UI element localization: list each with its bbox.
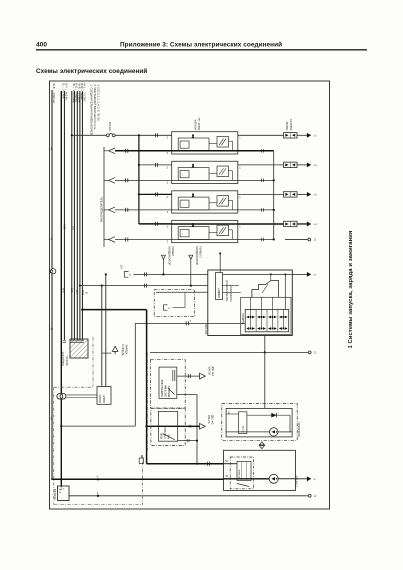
junction ig rail [264, 351, 266, 353]
wire HT 1 [115, 150, 172, 152]
wire HT 2 [115, 179, 172, 181]
wire B+ to starter50 [147, 463, 224, 465]
svg-text:3: 3 [190, 320, 192, 323]
junction bundle B+ [81, 308, 83, 310]
wire row3 feed [139, 193, 172, 195]
wire igsw drop 2 [105, 274, 107, 386]
junction panel pins [63, 340, 66, 342]
svg-text:КОММУТАТОР: КОММУТАТОР [230, 285, 233, 302]
wire b6 [76, 91, 78, 340]
igniter box [216, 273, 223, 300]
svg-text:30: 30 [225, 475, 228, 478]
junction trunk top [138, 134, 140, 136]
wire battery down [60, 399, 62, 486]
wire battery feed [60, 91, 62, 393]
wire ECU top [219, 253, 221, 272]
svg-text:1. СОЕДИНИТЕЛЬНАЯ ПАНЕЛЬ БЛОКО: 1. СОЕДИНИТЕЛЬНАЯ ПАНЕЛЬ БЛОКОВ [90, 85, 94, 136]
wire 50 [224, 463, 238, 465]
wire b3 [63, 91, 65, 340]
svg-text:W-B: W-B [62, 288, 65, 293]
ECU internal links [223, 285, 240, 287]
svg-text:W-R: W-R [81, 290, 84, 295]
wire b8 [81, 91, 83, 340]
svg-text:15A IGN: 15A IGN [108, 122, 112, 132]
wire b7 [79, 91, 81, 340]
wire igsw drop 1 [101, 286, 103, 387]
junction fuse line [71, 134, 73, 136]
boundary line e [142, 455, 144, 505]
ignition coil unit 4 [172, 223, 238, 225]
wire NE line [156, 291, 208, 293]
junction row2 feed [138, 164, 140, 166]
svg-text:B: B [85, 292, 88, 294]
svg-text:IC РЕГ.: IC РЕГ. [243, 425, 245, 433]
junction IGF start [79, 285, 81, 287]
svg-text:РАСПРЕДЕЛИТЕЛЬ: РАСПРЕДЕЛИТЕЛЬ [100, 197, 104, 222]
charge indicator arrow [112, 346, 118, 351]
svg-text:ЗАЖИГ. №1: ЗАЖИГ. №1 [198, 117, 201, 131]
svg-text:1: 1 [239, 166, 241, 169]
wire STA drop [134, 323, 136, 426]
svg-text:СОЕДИНИТ.: СОЕДИНИТ. [62, 351, 65, 366]
svg-text:МАССА: МАССА [208, 367, 211, 376]
svg-text:3: 3 [167, 211, 169, 214]
svg-text:СТАРТЕРА: СТАРТЕРА [164, 427, 167, 439]
wire B+ horizontal [82, 309, 146, 311]
wire fuse line left [72, 134, 107, 136]
junction igsw1 [101, 285, 103, 287]
wire charge branch [102, 352, 112, 354]
ignition switch box [97, 387, 111, 405]
ground arrow relay1 [200, 373, 206, 379]
svg-text:1: 1 [239, 137, 241, 140]
svg-text:2: 2 [97, 492, 99, 495]
wire STA line [135, 322, 245, 324]
svg-text:1 Системы запуска, заряда и за: 1 Системы запуска, заряда и зажигания [348, 231, 354, 349]
HT tick [261, 149, 263, 152]
wire secondary out 1 [238, 150, 274, 152]
wire starter rail [53, 478, 55, 480]
wire IGT line [134, 273, 208, 275]
svg-text:з-1: з-1 [314, 135, 318, 138]
wire b4 [71, 91, 73, 340]
svg-text:ДВС №1: ДВС №1 [211, 367, 214, 377]
svg-text:2.0L: 2.0L [70, 288, 73, 293]
svg-text:БАТАРЕЯ: БАТАРЕЯ [54, 489, 57, 500]
wire feed trunk [138, 135, 140, 224]
junction filter1 [162, 273, 164, 275]
capacitor filter 2 [189, 255, 193, 259]
wire spark 2 [238, 164, 284, 166]
distributor terminal 4 [109, 237, 115, 243]
svg-text:«: « [129, 273, 131, 277]
svg-text:м: м [314, 478, 316, 481]
wire spark 4 [238, 223, 284, 225]
wire spark end 4 [297, 223, 308, 225]
junction relay2 feed [145, 425, 147, 427]
junction logic [270, 273, 272, 275]
wire battery top pin [60, 486, 62, 488]
svg-text:B-Y ← №2 бл.: B-Y ← №2 бл. [65, 84, 69, 101]
wire B+ vertical [146, 310, 148, 464]
svg-text:IG2: IG2 [71, 226, 74, 231]
spark connector 1 [284, 133, 298, 138]
svg-text:B-Y: B-Y [75, 290, 78, 295]
svg-text:1: 1 [239, 225, 241, 228]
wire rail30 corner [51, 479, 53, 480]
starter relay box [151, 408, 185, 445]
wire rail30 [52, 478, 224, 480]
svg-text:СТАРТЕР: СТАРТЕР [295, 475, 299, 487]
svg-text:з-3: з-3 [314, 194, 318, 197]
svg-text:12: 12 [314, 239, 317, 242]
svg-text:2: 2 [167, 166, 169, 169]
wire b5 [73, 91, 75, 340]
svg-text:ПОМЕХ: ПОМЕХ [171, 247, 174, 256]
wire relay1 out [177, 375, 200, 377]
boundary line b [54, 386, 93, 388]
coupling symbol [259, 442, 264, 445]
junction HT row4 [273, 238, 275, 240]
sensor box [154, 289, 194, 316]
svg-text:3. (2,0 L) 1, 2, 3, 4, 5, 6, 7: 3. (2,0 L) 1, 2, 3, 4, 5, 6, 7В, 8А [97, 85, 101, 121]
junction panel [70, 339, 88, 358]
svg-text:Схемы электрических соединений: Схемы электрических соединений [36, 67, 147, 75]
battery box [58, 486, 70, 501]
generator link [226, 413, 238, 415]
generator outer [222, 403, 297, 440]
svg-text:W-L ← 3.0 ЭБУ: W-L ← 3.0 ЭБУ [83, 84, 87, 102]
svg-text:Приложение 3: Схемы электрич: Приложение 3: Схемы электрических соедин… [120, 41, 282, 49]
svg-text:МАССА: МАССА [207, 415, 210, 424]
wire ECU out right [292, 273, 307, 275]
solenoid coil [237, 462, 251, 481]
svg-text:ЗАЖИГ.: ЗАЖИГ. [103, 394, 106, 403]
distributor body [103, 147, 105, 247]
wire spark 1 [238, 134, 284, 136]
wire HT 3 [115, 209, 172, 211]
svg-text:ЗАМОК: ЗАМОК [99, 394, 102, 403]
svg-text:ПОМЕХ 2: ПОМЕХ 2 [198, 247, 201, 259]
wire secondary out 3 [238, 209, 274, 211]
fuse F1 [107, 134, 110, 137]
svg-text:2: 2 [167, 137, 169, 140]
wire row2 feed [139, 164, 172, 166]
wire spark end 3 [297, 193, 308, 195]
spark connector 3 [284, 192, 298, 197]
HT tick [261, 179, 263, 182]
wire ig rail [150, 351, 308, 353]
svg-text:ЗАЖИГАН.: ЗАЖИГАН. [242, 313, 245, 325]
diagram frame [50, 81, 330, 509]
svg-text:«: « [168, 306, 170, 310]
wire secondary out 2 [238, 179, 274, 181]
ignition coil unit 3 [172, 191, 238, 213]
svg-text:12: 12 [314, 495, 317, 498]
junction relay drop [196, 463, 198, 465]
junction igsw2 [105, 273, 107, 275]
svg-text::: : [182, 232, 183, 236]
svg-text:СВЕЧИ: СВЕЧИ [285, 121, 289, 130]
svg-text:КОНДЕНСАТОР: КОНДЕНСАТОР [195, 247, 198, 266]
splice marker 2 [97, 495, 99, 497]
svg-text:ГЕНЕРАТОР: ГЕНЕРАТОР [297, 422, 301, 437]
boundary line d [54, 504, 143, 506]
wire ECU to rail [264, 336, 266, 353]
ECU connector grid [245, 310, 289, 332]
svg-text:+: + [63, 486, 65, 490]
wire rail to generator [264, 352, 266, 408]
starter box [224, 450, 296, 490]
wire 30 out [278, 478, 295, 480]
connector symbol IGT [124, 272, 128, 278]
wire relay2 out [177, 440, 197, 442]
generator box [226, 408, 292, 437]
wire ECU grid feed [284, 274, 286, 309]
starter relay inner [158, 411, 177, 441]
wire spark end 2 [297, 164, 308, 166]
regulator box [239, 412, 247, 434]
wire HT 4 [115, 238, 172, 240]
wire starter to edge [296, 478, 308, 480]
svg-text:W-B ← 3.0W нет: W-B ← 3.0W нет [52, 84, 56, 105]
svg-text:КОНДЕНСАТОР: КОНДЕНСАТОР [167, 247, 170, 266]
svg-text:ТЯГОВОЕ: ТЯГОВОЕ [239, 469, 241, 480]
main relay box [150, 360, 185, 408]
wire 30 in [224, 478, 270, 480]
svg-text:ПАНЕЛЬ: ПАНЕЛЬ [66, 355, 69, 366]
junction filter2 [190, 285, 192, 287]
ECU connector pins [250, 297, 252, 328]
junction row3 feed [138, 193, 140, 195]
wire row4 feed [139, 223, 172, 225]
svg-text:КОММУТ.: КОММУТ. [219, 287, 221, 298]
junction battery wire [60, 425, 62, 427]
svg-text:2: 2 [167, 196, 169, 199]
distributor terminal 1 [109, 148, 115, 154]
sensor connector symbol [164, 305, 168, 310]
svg-text:2: 2 [167, 225, 169, 228]
spark connector 2 [284, 162, 298, 167]
connector on bus [51, 269, 56, 274]
boundary line f [146, 352, 148, 450]
svg-text:КАТУШКА: КАТУШКА [195, 119, 198, 130]
ECU inner box [241, 297, 291, 334]
ground arrow relay2 [200, 423, 206, 429]
ignition coil unit 1 [172, 132, 238, 154]
wire bus W-B [51, 90, 53, 269]
battery rail end [308, 494, 311, 497]
svg-text:IGT: IGT [121, 264, 124, 269]
wire IGT inside [223, 273, 293, 275]
svg-text:з-2: з-2 [314, 164, 318, 167]
boundary line a [92, 337, 94, 387]
wire spark 3 [238, 193, 284, 195]
svg-text:ти: ти [314, 274, 317, 277]
relay2 out tick [188, 425, 190, 428]
HT tick [261, 238, 263, 241]
junction HT [273, 209, 275, 211]
wire battery rail [69, 495, 308, 497]
svg-text:ГЛАВНОЕ РЕЛЕ: ГЛАВНОЕ РЕЛЕ [161, 379, 164, 397]
generator rotor [270, 428, 278, 436]
wire terminal to switch [66, 394, 97, 396]
ECU logic shape [252, 281, 279, 298]
ignition coil unit 2 [172, 161, 238, 183]
wire IGF line [80, 285, 208, 287]
fusible link [139, 458, 143, 463]
svg-text:СИСТЕМЫ: СИСТЕМЫ [166, 385, 168, 397]
wire row4 HT to edge [285, 238, 308, 240]
generator diode [247, 414, 290, 416]
ig rail end [308, 351, 311, 354]
junction HT [273, 179, 275, 181]
svg-text:12: 12 [314, 352, 317, 355]
svg-text:з-4: з-4 [314, 223, 318, 226]
svg-text:ТРАНЗИСТОРНЫЙ: ТРАНЗИСТОРНЫЙ [226, 280, 229, 302]
splice marker 4 [97, 478, 99, 480]
wire relay1 out2 [177, 394, 197, 396]
svg-text::: : [182, 143, 183, 147]
svg-text:3: 3 [167, 152, 169, 155]
wire relay2 ground line [147, 425, 200, 427]
boundary line c [53, 387, 55, 504]
svg-text:4: 4 [97, 476, 99, 479]
battery terminal [57, 393, 63, 399]
solenoid box [230, 457, 253, 489]
HT tick [261, 208, 263, 211]
svg-text:К ИНДИК.: К ИНДИК. [121, 345, 124, 357]
svg-text:2. МОНТАЖНЫЙ БЛОК №2 (2,0 L) с: 2. МОНТАЖНЫЙ БЛОК №2 (2,0 L) сх. [93, 85, 97, 131]
distributor terminal 2 [109, 178, 115, 184]
spark connector 4 [284, 221, 298, 226]
svg-text:1: 1 [239, 196, 241, 199]
main relay inner [159, 367, 177, 398]
svg-text:ЗАЖИГАН.: ЗАЖИГАН. [290, 118, 293, 130]
distributor terminal 3 [109, 207, 115, 213]
svg-text:AM2: AM2 [63, 224, 66, 230]
starter motor [269, 474, 278, 483]
svg-text:400: 400 [36, 42, 47, 49]
svg-text:ДВС №2: ДВС №2 [210, 415, 213, 425]
svg-text::: : [182, 173, 183, 177]
header rule [36, 49, 367, 51]
svg-text:50: 50 [225, 460, 228, 463]
svg-text:3: 3 [167, 182, 169, 185]
svg-text::: : [182, 202, 183, 206]
svg-text:3: 3 [167, 241, 169, 244]
generator rotor wire [226, 431, 269, 433]
wire HT collector [273, 151, 275, 240]
wire secondary out 4 [238, 238, 274, 240]
wire spark end 1 [297, 134, 308, 136]
capacitor filter 1 [161, 255, 165, 259]
svg-text:ЗАРЯДА: ЗАРЯДА [124, 345, 127, 355]
wire fuse line right [115, 134, 172, 136]
ECU box [208, 270, 292, 336]
svg-text:ЭБУ ДВС: ЭБУ ДВС [205, 324, 208, 335]
